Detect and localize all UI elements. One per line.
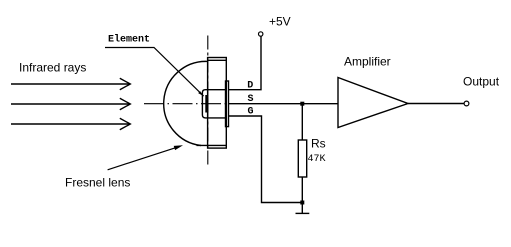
Fresnel lens dome arc (164, 61, 207, 145)
wire: drain pin to +5V (229, 37, 262, 90)
svg-text:Amplifier: Amplifier (344, 55, 391, 69)
wire: junction down to resistor (301, 104, 303, 140)
wire: amplifier to output (408, 103, 464, 105)
wire: source pin to amplifier input (229, 103, 339, 105)
infrared ray arrow 3 (11, 118, 130, 129)
junction node at ground rail (300, 201, 304, 205)
pyroelectric element (filled bar) (205, 95, 208, 113)
label "Element" with leader (105, 34, 204, 97)
sensor flange (226, 81, 229, 127)
wire: gate pin down to ground rail (229, 116, 303, 203)
infrared ray arrow 2 (11, 98, 130, 109)
svg-text:47K: 47K (308, 154, 326, 165)
svg-text:Infrared rays: Infrared rays (19, 61, 86, 75)
resistor Rs body (298, 140, 306, 177)
svg-text:Element: Element (108, 34, 150, 46)
output terminal (463, 75, 500, 106)
junction node at S/Rs (300, 102, 304, 106)
horizontal centerline (144, 103, 229, 105)
infrared ray arrow 1 (11, 78, 130, 89)
sensor can body (202, 90, 225, 118)
op-amp amplifier (338, 55, 408, 128)
+5V terminal (259, 15, 291, 37)
svg-text:Output: Output (463, 75, 500, 89)
svg-text:+5V: +5V (269, 15, 291, 29)
vertical centerline (207, 36, 209, 167)
ground (296, 203, 310, 214)
lens housing (197, 58, 227, 149)
label "Fresnel lens" with arrow (65, 145, 183, 189)
svg-text:Rs: Rs (311, 137, 326, 151)
svg-text:Fresnel lens: Fresnel lens (65, 176, 130, 190)
wire: resistor to ground junction (301, 177, 303, 203)
